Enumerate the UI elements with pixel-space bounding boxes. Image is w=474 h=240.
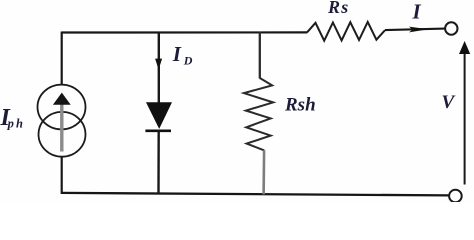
terminal negative output	[449, 190, 462, 203]
svg-text:V: V	[442, 92, 456, 113]
current source Iph arrow shaft	[60, 105, 63, 152]
wire Rsh bottom stub	[262, 150, 265, 194]
svg-text:Rsh: Rsh	[284, 95, 316, 116]
wire left rail lower	[61, 156, 63, 194]
wire Rsh top stub	[259, 32, 261, 79]
wire diode branch upper	[158, 32, 160, 103]
wire bottom rail	[62, 193, 449, 196]
resistor Rsh	[244, 78, 273, 150]
wire top rail right segment	[385, 29, 445, 31]
wire top rail left segment	[62, 31, 308, 33]
resistor Rs	[307, 22, 385, 41]
current source Iph circle lower	[39, 112, 86, 157]
current source Iph circle upper	[38, 85, 86, 130]
diode D1 triangle	[146, 102, 172, 129]
svg-text:D: D	[183, 53, 193, 67]
terminal positive output	[445, 22, 457, 34]
current source Iph arrowhead	[53, 93, 71, 105]
diode D1 cathode bar	[145, 130, 171, 133]
wire left rail upper	[61, 32, 63, 85]
arrow diode current ID direction	[155, 59, 162, 70]
wire output voltage line	[464, 53, 466, 185]
svg-text:Rs: Rs	[327, 0, 349, 17]
arrow current I direction	[409, 27, 428, 33]
svg-text:I: I	[172, 42, 182, 66]
svg-text:I: I	[412, 0, 422, 23]
wire diode branch lower	[157, 130, 160, 194]
arrow voltage V direction	[459, 41, 470, 54]
svg-text:ph: ph	[7, 117, 26, 131]
